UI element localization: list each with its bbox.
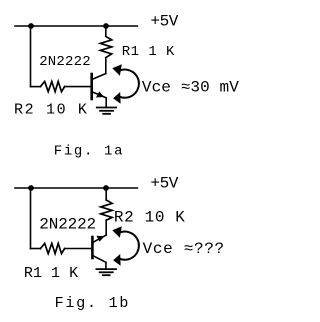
svg-text:Fig. 1a: Fig. 1a	[54, 144, 124, 160]
svg-text:Vce ≈???: Vce ≈???	[143, 240, 225, 258]
svg-text:R1 1 K: R1 1 K	[122, 44, 175, 60]
svg-text:Vce ≈30 mV: Vce ≈30 mV	[142, 78, 239, 96]
svg-text:R2 10 K: R2 10 K	[114, 209, 186, 227]
svg-text:+5V: +5V	[150, 13, 178, 31]
svg-text:2N2222: 2N2222	[39, 216, 96, 234]
svg-text:R1 1 K: R1 1 K	[24, 265, 78, 282]
svg-text:R2 10 K: R2 10 K	[14, 102, 89, 119]
svg-text:Fig. 1b: Fig. 1b	[55, 295, 131, 312]
svg-text:2N2222: 2N2222	[39, 54, 91, 70]
svg-text:+5V: +5V	[150, 175, 178, 193]
